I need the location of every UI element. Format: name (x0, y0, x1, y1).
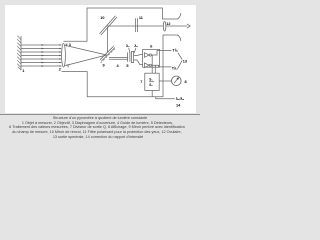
svg-text:4: 4 (117, 64, 120, 68)
svg-text:14: 14 (176, 103, 181, 107)
svg-text:2: 2 (59, 68, 61, 72)
svg-text:λ₁: λ₁ (126, 44, 130, 48)
svg-text:Tλ₁: Tλ₁ (172, 48, 178, 52)
svg-text:7: 7 (140, 80, 142, 84)
svg-text:5: 5 (126, 64, 128, 68)
svg-text:1: 1 (22, 69, 24, 73)
svg-text:12: 12 (166, 22, 170, 26)
svg-text:S₂: S₂ (149, 83, 153, 87)
svg-text:10: 10 (100, 16, 104, 20)
svg-text:λ₁/λ₂: λ₁/λ₂ (176, 97, 185, 101)
svg-text:3: 3 (69, 43, 71, 47)
svg-text:6: 6 (150, 45, 152, 49)
svg-text:Tλ₂: Tλ₂ (172, 66, 178, 70)
svg-text:13: 13 (183, 59, 187, 63)
svg-text:λ₂: λ₂ (134, 44, 138, 48)
svg-text:9: 9 (103, 63, 105, 67)
svg-text:S₁: S₁ (149, 77, 153, 81)
svg-text:8: 8 (185, 80, 187, 84)
svg-text:11: 11 (139, 16, 143, 20)
